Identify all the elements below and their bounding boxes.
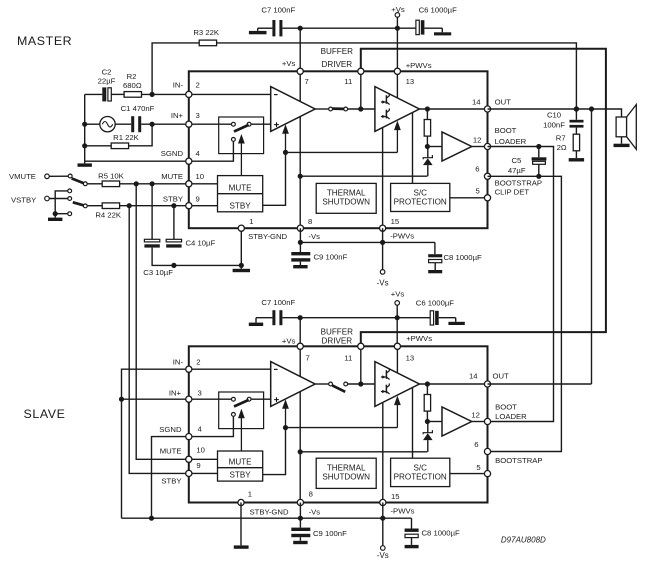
wire: pin 1 to ground (slave) bbox=[240, 503, 242, 546]
wire: input ground bus bbox=[84, 94, 86, 161]
wire: +Vs rail left segment (master) bbox=[258, 27, 273, 29]
junction: -Vs terminal tap (master) bbox=[380, 240, 385, 245]
svg-text:+Vs: +Vs bbox=[391, 289, 405, 298]
slave IC pin 5 bbox=[484, 471, 490, 477]
svg-text:-Vs: -Vs bbox=[377, 279, 389, 288]
svg-text:C3 10µF: C3 10µF bbox=[143, 268, 173, 277]
slave IC junction: pin 11 node bbox=[358, 381, 363, 386]
master IC power transistor glyph 1 bbox=[385, 95, 387, 104]
slave IC wire: input switch to op-amp non-inverting input bbox=[249, 398, 271, 400]
svg-text:D97AU808D: D97AU808D bbox=[501, 535, 546, 544]
svg-text:SGND: SGND bbox=[159, 425, 182, 434]
master IC wire: bias line to power amp arrow bbox=[286, 151, 398, 153]
junction: R1 bus bbox=[82, 143, 87, 148]
wire: +Vs rail left segment (slave) bbox=[256, 317, 272, 319]
master IC thermal shutdown block bbox=[316, 183, 376, 213]
wire: C4 stem bbox=[173, 206, 175, 240]
svg-text:R4 22K: R4 22K bbox=[95, 210, 122, 219]
master IC wire: zener clamp line bbox=[300, 175, 427, 177]
ground (C6 master) bbox=[441, 28, 443, 32]
svg-text:+PWVs: +PWVs bbox=[406, 61, 432, 70]
svg-text:C7 100nF: C7 100nF bbox=[261, 298, 295, 307]
slave IC op-amp minus marker bbox=[274, 368, 278, 370]
junction: +Vs terminal tap (master) bbox=[395, 26, 400, 31]
master IC buffer link contact right bbox=[344, 107, 348, 111]
master IC input switch contact C bbox=[232, 138, 236, 142]
svg-text:BUFFER: BUFFER bbox=[321, 47, 354, 56]
capacitor C3 bbox=[144, 239, 159, 242]
svg-text:-Vs: -Vs bbox=[308, 232, 320, 241]
master IC wire: pin 2 to op-amp inverting input bbox=[189, 93, 271, 95]
VSTBY switch contact top bbox=[68, 189, 72, 193]
wire: OUT to speaker bbox=[488, 109, 622, 117]
wire: source to C1 bbox=[115, 123, 131, 125]
master IC resistor internal bootstrap bbox=[426, 109, 428, 120]
slave IC pin 12 bbox=[484, 418, 490, 424]
junction: C4 ground bbox=[171, 263, 176, 268]
wire: source to bus bbox=[85, 123, 100, 125]
terminal -Vs (slave) bbox=[382, 518, 384, 546]
svg-text:-PWVs: -PWVs bbox=[390, 231, 414, 240]
master IC pin 6 bbox=[484, 173, 490, 179]
wire: STBY line master to slave bbox=[129, 206, 189, 474]
resistor R1 bbox=[111, 143, 128, 149]
slave IC wire: bias line to power amp arrow bbox=[286, 427, 398, 429]
master IC wire: buffer input bbox=[427, 146, 442, 148]
ground (speaker) bbox=[621, 137, 623, 144]
wire: MUTE line master to slave bbox=[136, 184, 189, 460]
svg-text:BOOT: BOOT bbox=[495, 126, 517, 135]
svg-text:C8 1000µF: C8 1000µF bbox=[422, 529, 460, 538]
ground (zobel) bbox=[575, 151, 577, 158]
junction: STBY to slave bbox=[127, 203, 132, 208]
master IC wire: input switch to op-amp non-inverting input bbox=[249, 123, 271, 125]
master IC pin 13 bbox=[394, 68, 400, 74]
svg-text:1: 1 bbox=[249, 217, 253, 226]
master IC op-amp input stage bbox=[271, 87, 315, 132]
ground (C6 slave) bbox=[455, 318, 457, 322]
ground (C7 master) bbox=[257, 28, 259, 31]
slave IC input switch box bbox=[219, 392, 264, 429]
svg-text:C1 470nF: C1 470nF bbox=[121, 104, 155, 113]
slave IC wire: pin 2 to op-amp inverting input bbox=[189, 368, 271, 370]
wire: pin 15 below box bbox=[382, 228, 384, 242]
slave IC pin 10 bbox=[186, 456, 192, 462]
VSTBY switch lever bbox=[73, 202, 84, 205]
wire: pin 15 below box (slave) bbox=[382, 503, 384, 519]
wire: C2 to R2 bbox=[111, 93, 124, 95]
wire: R2 to pin 2 bbox=[142, 93, 189, 95]
master IC junction: -Vs / zener clamp node bbox=[298, 174, 303, 179]
master IC pin 5 bbox=[484, 195, 490, 201]
slave IC MUTE STBY block bbox=[218, 451, 263, 481]
svg-text:13: 13 bbox=[406, 354, 415, 363]
slave IC IC package outline bbox=[189, 346, 488, 502]
wire: slave OUT to master OUT bbox=[488, 383, 592, 385]
master IC bias arrow into power amp bbox=[394, 121, 401, 131]
capacitor C10 bbox=[575, 109, 577, 120]
svg-text:12: 12 bbox=[473, 136, 482, 145]
ground (C8 slave) bbox=[411, 538, 413, 545]
ground (STBY-GND slave) bbox=[234, 545, 249, 548]
junction: MUTE to C3 bbox=[150, 181, 155, 186]
svg-text:-PWVs: -PWVs bbox=[391, 506, 415, 515]
master IC pin 1 bbox=[238, 225, 244, 231]
ground (signal input) bbox=[84, 161, 86, 163]
svg-text:C4 10µF: C4 10µF bbox=[186, 239, 216, 248]
svg-text:MUTE: MUTE bbox=[160, 446, 182, 455]
svg-text:C9 100nF: C9 100nF bbox=[314, 252, 348, 261]
svg-text:9: 9 bbox=[196, 195, 200, 204]
svg-text:OUT: OUT bbox=[493, 371, 510, 380]
ground (C8 master) bbox=[434, 263, 436, 270]
resistor R7 bbox=[575, 128, 577, 135]
master IC bias arrow into op-amp bbox=[282, 124, 289, 134]
svg-text:C6 1000µF: C6 1000µF bbox=[419, 6, 457, 15]
svg-text:STBY: STBY bbox=[230, 471, 252, 480]
wire: rail to pin 13 (slave) bbox=[396, 318, 398, 347]
slave IC junction: bias tee bbox=[283, 425, 288, 430]
slave IC buffer link lever (open) bbox=[332, 385, 345, 391]
wire: C1 to pin 3 bbox=[141, 123, 189, 125]
master IC wire: power amp bottom to pin 15 bbox=[382, 128, 384, 229]
slave IC junction: bootstrap resistor node bbox=[425, 419, 430, 424]
svg-text:680Ω: 680Ω bbox=[123, 81, 142, 90]
signal source bbox=[100, 117, 115, 132]
master IC wire: pin 11 to signal node bbox=[360, 71, 362, 109]
resistor R5 bbox=[102, 181, 119, 187]
svg-text:CLIP DET: CLIP DET bbox=[495, 187, 530, 196]
slave IC input switch contact C bbox=[232, 413, 236, 417]
svg-text:THERMAL: THERMAL bbox=[327, 189, 366, 198]
junction: VSTBY ground bbox=[53, 211, 58, 216]
slave IC wire: op-amp output to buffer link bbox=[315, 383, 331, 385]
svg-text:7: 7 bbox=[306, 354, 310, 363]
svg-text:C9 100nF: C9 100nF bbox=[313, 529, 347, 538]
svg-text:S/C: S/C bbox=[413, 189, 427, 198]
svg-text:100nF: 100nF bbox=[543, 120, 565, 129]
terminal +Vs (slave) bbox=[395, 301, 400, 306]
master IC wire: buffer to pin 12 bbox=[472, 146, 488, 148]
ground (STBY-GND master) bbox=[240, 265, 242, 268]
svg-text:MUTE: MUTE bbox=[161, 172, 183, 181]
junction: C5 bottom bbox=[536, 174, 541, 179]
slave IC boot loader buffer bbox=[442, 407, 472, 436]
slave IC pin 7 bbox=[297, 343, 303, 349]
master IC pin 8 bbox=[297, 225, 303, 231]
slave IC pin 6 bbox=[484, 448, 490, 454]
slave IC op-amp plus marker bbox=[274, 399, 279, 401]
slave IC wire: power amp output bbox=[419, 383, 487, 385]
master IC input switch lever bbox=[234, 125, 249, 132]
wire: pin 12 master to slave bbox=[488, 147, 554, 422]
master IC IC package outline bbox=[189, 71, 488, 228]
wire: slave IN- IN+ tie bbox=[122, 369, 189, 518]
svg-text:DRIVER: DRIVER bbox=[322, 336, 353, 345]
wire: +Vs rail (slave) bbox=[282, 317, 430, 319]
slave IC wire: buffer link to power amp input bbox=[346, 383, 375, 385]
wire: slave SGND to ground rail bbox=[152, 437, 189, 519]
master IC pin 2 bbox=[186, 91, 192, 97]
ground (C7 slave) bbox=[255, 318, 257, 323]
slave IC junction: output node bbox=[425, 381, 430, 386]
slave IC input switch contact B bbox=[247, 397, 251, 401]
wire: master pin 11 to slave pin 11 link bbox=[361, 49, 606, 347]
capacitor C1 bbox=[131, 116, 134, 132]
wire: R1 feedback bbox=[129, 124, 153, 146]
master IC input switch box bbox=[219, 117, 264, 154]
wire: OUT to slave OUT bbox=[591, 109, 593, 384]
svg-text:LOADER: LOADER bbox=[495, 137, 527, 146]
master IC input switch contact B bbox=[247, 122, 251, 126]
master IC wire: pin 9 to STBY block bbox=[189, 205, 218, 207]
svg-text:STBY: STBY bbox=[163, 195, 183, 204]
resistor R4 bbox=[102, 203, 119, 209]
svg-text:STBY-GND: STBY-GND bbox=[250, 507, 289, 516]
svg-text:IN+: IN+ bbox=[169, 388, 182, 397]
svg-text:+PWVs: +PWVs bbox=[406, 334, 432, 343]
junction: source bus bbox=[82, 122, 87, 127]
master IC junction: output node bbox=[425, 106, 430, 111]
master IC junction: bias tee bbox=[283, 150, 288, 155]
svg-text:VSTBY: VSTBY bbox=[11, 196, 36, 205]
wire: SGND line bbox=[85, 160, 189, 162]
slave IC power transistor glyph 2 bbox=[385, 385, 387, 394]
slave IC wire: pin 11 to signal node bbox=[360, 346, 362, 384]
slave IC pin 3 bbox=[186, 396, 192, 402]
svg-text:5: 5 bbox=[476, 463, 480, 472]
slave IC wire: pin 13 supply into power amp bbox=[396, 346, 398, 373]
svg-text:9: 9 bbox=[196, 461, 200, 470]
svg-text:-Vs: -Vs bbox=[377, 551, 389, 560]
master IC pin 15 bbox=[380, 225, 386, 231]
svg-text:STBY: STBY bbox=[230, 201, 252, 210]
capacitor C9 (slave) bbox=[299, 518, 301, 527]
wire: pin 8 below box (slave) bbox=[299, 503, 301, 519]
VSTBY switch pivot bbox=[83, 204, 87, 208]
wire: C6 to ground (master) bbox=[424, 27, 442, 29]
svg-text:15: 15 bbox=[391, 217, 400, 226]
slave IC pin 1 bbox=[238, 499, 244, 505]
svg-text:6: 6 bbox=[474, 440, 478, 449]
slave IC buffer link contact left bbox=[329, 382, 333, 386]
svg-text:6: 6 bbox=[475, 165, 479, 174]
svg-text:2Ω: 2Ω bbox=[557, 143, 567, 152]
master IC pin 7 bbox=[297, 68, 303, 74]
slave IC wire: pin 3 to input switch bbox=[189, 398, 234, 400]
wire: rail to pin 7 (master) bbox=[299, 28, 301, 71]
junction: R3 feedback to OUT bbox=[574, 106, 579, 111]
junction: STBY-GND ground node bbox=[239, 263, 244, 268]
resistor R2 bbox=[124, 92, 141, 98]
wire: R5 to pin 10 (MUTE line) bbox=[120, 183, 189, 185]
svg-text:15: 15 bbox=[391, 492, 400, 501]
svg-text:MUTE: MUTE bbox=[229, 184, 253, 193]
wire: rail to pin 13 (master) bbox=[396, 28, 398, 71]
master IC buffer link contact left bbox=[329, 107, 333, 111]
wire: slave ground rail bbox=[122, 517, 412, 519]
svg-text:+Vs: +Vs bbox=[282, 337, 296, 346]
slave IC wire: pin 10 to MUTE block bbox=[189, 458, 218, 460]
svg-text:C10: C10 bbox=[547, 111, 561, 120]
wire: VSTBY ground branch bbox=[55, 191, 69, 214]
capacitor C5 bbox=[538, 147, 540, 158]
capacitor C8 (slave) bbox=[411, 518, 413, 528]
master IC wire: power amp to S/C protection bbox=[412, 113, 414, 184]
slave IC input switch contact A bbox=[232, 397, 236, 401]
wire: R1 to bus bbox=[85, 145, 112, 147]
slave IC wire: zener clamp line bbox=[300, 451, 427, 453]
svg-text:2: 2 bbox=[196, 358, 200, 367]
svg-text:C7 100nF: C7 100nF bbox=[261, 5, 295, 14]
wire: IN- from C2 bbox=[85, 93, 103, 95]
svg-text:4: 4 bbox=[198, 424, 203, 433]
junction: pin7 supply tap (slave) bbox=[298, 315, 303, 320]
slave IC pin 4 bbox=[186, 434, 192, 440]
capacitor C6 (slave) bbox=[430, 311, 433, 325]
slave IC pin 11 bbox=[358, 343, 364, 349]
slave IC power transistor glyph 1 bbox=[385, 370, 387, 379]
wire: C3 stem bbox=[151, 184, 153, 240]
junction: IN+ node bbox=[150, 122, 155, 127]
svg-text:R3 22K: R3 22K bbox=[193, 28, 220, 37]
svg-text:OUT: OUT bbox=[495, 98, 512, 107]
slave IC thermal shutdown block bbox=[316, 458, 376, 488]
wire: VMUTE to contact bbox=[49, 175, 68, 177]
svg-text:R1 22K: R1 22K bbox=[113, 133, 140, 142]
svg-text:MUTE: MUTE bbox=[229, 458, 253, 467]
master IC mute arrow into switch bbox=[238, 134, 245, 144]
svg-text:47µF: 47µF bbox=[508, 166, 526, 175]
wire: pin 1 to ground bbox=[240, 228, 242, 265]
wire: C3 C4 ground line bbox=[152, 248, 241, 266]
svg-text:C5: C5 bbox=[511, 156, 521, 165]
master IC wire: op-amp negative supply to pin 8 bbox=[299, 117, 301, 229]
master IC wire: pin 3 to input switch bbox=[189, 123, 234, 125]
master IC wire: op-amp output to buffer link bbox=[315, 108, 331, 110]
svg-text:+Vs: +Vs bbox=[391, 5, 405, 14]
svg-text:BUFFER: BUFFER bbox=[321, 327, 354, 336]
slave IC mute arrow into switch bbox=[238, 409, 245, 419]
master IC wire: switch lower contact to pin 4 bbox=[189, 141, 234, 161]
svg-text:BOOT: BOOT bbox=[495, 403, 517, 412]
VMUTE switch contact bbox=[68, 174, 72, 178]
junction: -Vs rail pin8 (master) bbox=[298, 240, 303, 245]
capacitor C2 bbox=[102, 87, 106, 101]
master IC power amp stage bbox=[375, 87, 420, 132]
master IC wire: S/C protection to pin 5 bbox=[450, 197, 488, 199]
svg-text:12: 12 bbox=[471, 410, 480, 419]
junction: slave IN+ tie bbox=[119, 397, 124, 402]
wire: R4 to pin 9 (STBY line) bbox=[120, 205, 189, 207]
wire: rail to pin 7 (slave) bbox=[299, 318, 301, 347]
slave IC resistor internal bootstrap bbox=[426, 384, 428, 395]
ground (C9 master) bbox=[299, 262, 301, 265]
svg-text:PROTECTION: PROTECTION bbox=[394, 198, 447, 207]
slave IC wire: pin 7 supply into op-amp bbox=[299, 346, 301, 376]
slave IC pin 13 bbox=[394, 343, 400, 349]
slave IC pin 9 bbox=[186, 470, 192, 476]
capacitor C7 (master) bbox=[272, 20, 275, 36]
slave IC pin 14 bbox=[484, 381, 490, 387]
resistor R3 bbox=[199, 40, 216, 46]
terminal +Vs (master) bbox=[395, 13, 400, 18]
junction: OUT to slave tap bbox=[589, 106, 594, 111]
svg-text:SHUTDOWN: SHUTDOWN bbox=[322, 472, 370, 481]
slave IC power amp stage bbox=[375, 362, 420, 407]
slave IC wire: buffer input bbox=[427, 421, 442, 423]
wire: pin 6 master to slave bbox=[488, 176, 562, 451]
svg-text:10: 10 bbox=[196, 446, 205, 455]
junction: SGND tie (slave) bbox=[149, 516, 154, 521]
slave IC wire: power amp bottom to pin 15 bbox=[382, 403, 384, 503]
svg-text:R2: R2 bbox=[127, 72, 137, 81]
slave IC wire: power amp to S/C protection bbox=[412, 388, 414, 459]
svg-text:VMUTE: VMUTE bbox=[9, 172, 36, 181]
svg-text:BOOTSTRAP: BOOTSTRAP bbox=[495, 456, 542, 465]
capacitor C6 (master) bbox=[416, 20, 419, 34]
wire: VSTBY to contact bbox=[49, 198, 68, 200]
svg-text:3: 3 bbox=[198, 388, 202, 397]
svg-text:4: 4 bbox=[196, 149, 201, 158]
master IC S/C protection block bbox=[391, 183, 450, 211]
VSTBY switch contact bottom bbox=[68, 212, 72, 216]
junction: C5 top bbox=[536, 144, 541, 149]
wire: pin 8 below box bbox=[299, 228, 301, 242]
wire: C6 to ground (slave) bbox=[439, 317, 456, 319]
slave IC input switch lever bbox=[234, 400, 249, 407]
svg-text:8: 8 bbox=[309, 490, 313, 499]
master IC wire: pin 13 supply into power amp bbox=[396, 71, 398, 98]
wire: lever to R5 bbox=[87, 183, 102, 185]
capacitor C7 (slave) bbox=[272, 310, 275, 325]
svg-text:14: 14 bbox=[469, 371, 478, 380]
svg-text:IN+: IN+ bbox=[171, 111, 184, 120]
master IC wire: pin 10 to MUTE block bbox=[189, 183, 218, 185]
slave IC zener clamp diode bbox=[427, 422, 429, 433]
junction: STBY to C4 bbox=[171, 203, 176, 208]
svg-text:IN-: IN- bbox=[173, 81, 184, 90]
master IC pin 12 bbox=[484, 143, 490, 149]
master IC power transistor glyph 2 bbox=[385, 110, 387, 119]
slave IC pin 2 bbox=[186, 366, 192, 372]
master IC buffer link lever (closed) bbox=[332, 107, 344, 110]
wire: lever to R4 bbox=[87, 205, 102, 207]
svg-text:THERMAL: THERMAL bbox=[327, 463, 366, 472]
wire: -Vs rail (master) bbox=[300, 241, 435, 243]
VMUTE switch pivot bbox=[83, 182, 87, 186]
wire: +Vs rail (master) bbox=[282, 27, 416, 29]
master IC pin 10 bbox=[186, 181, 192, 187]
slave IC buffer link contact right bbox=[344, 382, 348, 386]
svg-text:10: 10 bbox=[196, 172, 205, 181]
slave IC S/C protection block bbox=[391, 458, 450, 486]
slave IC wire: S/C protection to pin 5 bbox=[450, 473, 488, 475]
master IC zener clamp diode bbox=[427, 147, 429, 158]
junction: MUTE to slave bbox=[134, 181, 139, 186]
svg-text:C6 1000µF: C6 1000µF bbox=[416, 299, 454, 308]
svg-text:PROTECTION: PROTECTION bbox=[394, 472, 447, 481]
slave IC op-amp input stage bbox=[271, 362, 315, 407]
wire: slave IN+ to pin 3 bbox=[122, 398, 189, 400]
wire: R3 feedback net bbox=[152, 43, 199, 95]
master IC pin 14 bbox=[484, 106, 490, 112]
svg-text:-Vs: -Vs bbox=[309, 507, 321, 516]
capacitor C9 (master) bbox=[299, 242, 301, 252]
master IC op-amp plus marker bbox=[274, 124, 279, 126]
svg-text:C8 1000µF: C8 1000µF bbox=[444, 253, 482, 262]
svg-text:S/C: S/C bbox=[413, 463, 427, 472]
